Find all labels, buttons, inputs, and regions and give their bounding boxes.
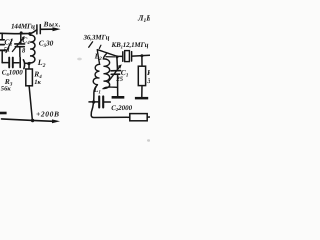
wire: short stub under sloped wire: [106, 56, 115, 58]
resistor (right, cut at edge): [141, 56, 143, 66]
capacitor plate at C4 branch foot: [19, 58, 21, 68]
faint smudge left of L2: [77, 58, 82, 61]
annotation tick: [89, 42, 93, 47]
node: junction dot on bottom rail: [31, 119, 34, 122]
trimmer capacitor C3 (cut at left edge): [0, 39, 4, 41]
wire: after bottom resistor: [147, 116, 150, 118]
capacitor C5 plates: [37, 25, 40, 34]
svg-text:+200В: +200В: [36, 110, 59, 119]
svg-text:КВ112,1МГц: КВ112,1МГц: [111, 41, 149, 49]
ground bar under resistor: [135, 97, 148, 100]
svg-text:25: 25: [115, 76, 123, 83]
wire: C2 right stub: [104, 101, 110, 103]
wire: C4 lower plate down to C6 bus: [19, 47, 21, 57]
svg-text:1к: 1к: [34, 79, 41, 86]
wire: C3 down to C6 bus: [1, 51, 3, 63]
C4 variable arrow: [12, 38, 23, 52]
svg-text:51: 51: [4, 46, 11, 53]
inductor L2 (left circuit): [29, 35, 35, 63]
capacitor C2 plates: [98, 96, 100, 107]
wire: C6 right stub: [14, 62, 19, 64]
node: junction dot of C4 branch on top bus: [20, 31, 23, 34]
node: junction of C3 branch on top bus: [1, 33, 3, 38]
svg-text:144МГц: 144МГц: [11, 23, 35, 31]
inductor L2 (right circuit, coupling winding): [93, 50, 99, 84]
C3 trimmer arrow: [6, 40, 12, 53]
wire: C1 branch lower: [117, 75, 119, 97]
C1 variable arrow: [108, 67, 119, 82]
resistor R4: [28, 64, 30, 69]
svg-text:Вых.: Вых.: [43, 21, 61, 29]
curved plate of capacitor at C4 foot: [23, 60, 24, 69]
variable capacitor C4 plates: [15, 43, 25, 45]
paper background: [0, 0, 150, 150]
wire: top bus right of C5 to output arrow: [40, 28, 53, 30]
node: junction dot coil top on bus: [28, 32, 31, 35]
terminal dash at left edge: [0, 112, 7, 115]
node: junction dot C1 branch: [116, 55, 119, 58]
annotation tick 2: [99, 45, 101, 48]
svg-text:R: R: [146, 68, 150, 77]
inductor L1 (right circuit, tank winding): [103, 54, 117, 89]
node: junction dot coil/R4/C6: [27, 62, 30, 65]
wire: top bus of right circuit: [97, 50, 122, 57]
output arrowhead (Вых.): [53, 27, 61, 31]
wire: top bus of left circuit: [0, 30, 37, 34]
capacitor C6 plates: [8, 58, 10, 68]
wire: C6 left stub: [2, 62, 8, 64]
wire: L2 bottom down to C2 node: [91, 85, 97, 116]
node: junction dot R branch: [140, 54, 143, 57]
wire: to center junction: [25, 62, 28, 64]
svg-text:56к: 56к: [1, 86, 12, 93]
variable capacitor C1 plates: [111, 70, 121, 72]
svg-text:С61000: С61000: [2, 69, 23, 77]
quartz crystal КВ1: [122, 52, 124, 61]
+200V arrowhead: [52, 119, 60, 123]
wire: C2 left stub: [89, 101, 98, 103]
svg-text:С22000: С22000: [111, 104, 132, 112]
wire: C1 branch upper: [116, 57, 119, 70]
wire: C4 branch down: [20, 33, 22, 43]
wire: +200V bottom rail: [2, 119, 54, 121]
svg-text:С530: С530: [39, 39, 54, 50]
faint smudge right edge bottom: [147, 139, 150, 141]
node: junction dot C2: [92, 100, 95, 103]
wire: bottom rail of right circuit: [91, 115, 130, 117]
svg-text:3: 3: [146, 77, 150, 85]
svg-text:36,3МГц: 36,3МГц: [83, 34, 110, 42]
resistor (bottom, horizontal): [130, 114, 147, 121]
ground bar under L1/C1: [112, 96, 125, 99]
